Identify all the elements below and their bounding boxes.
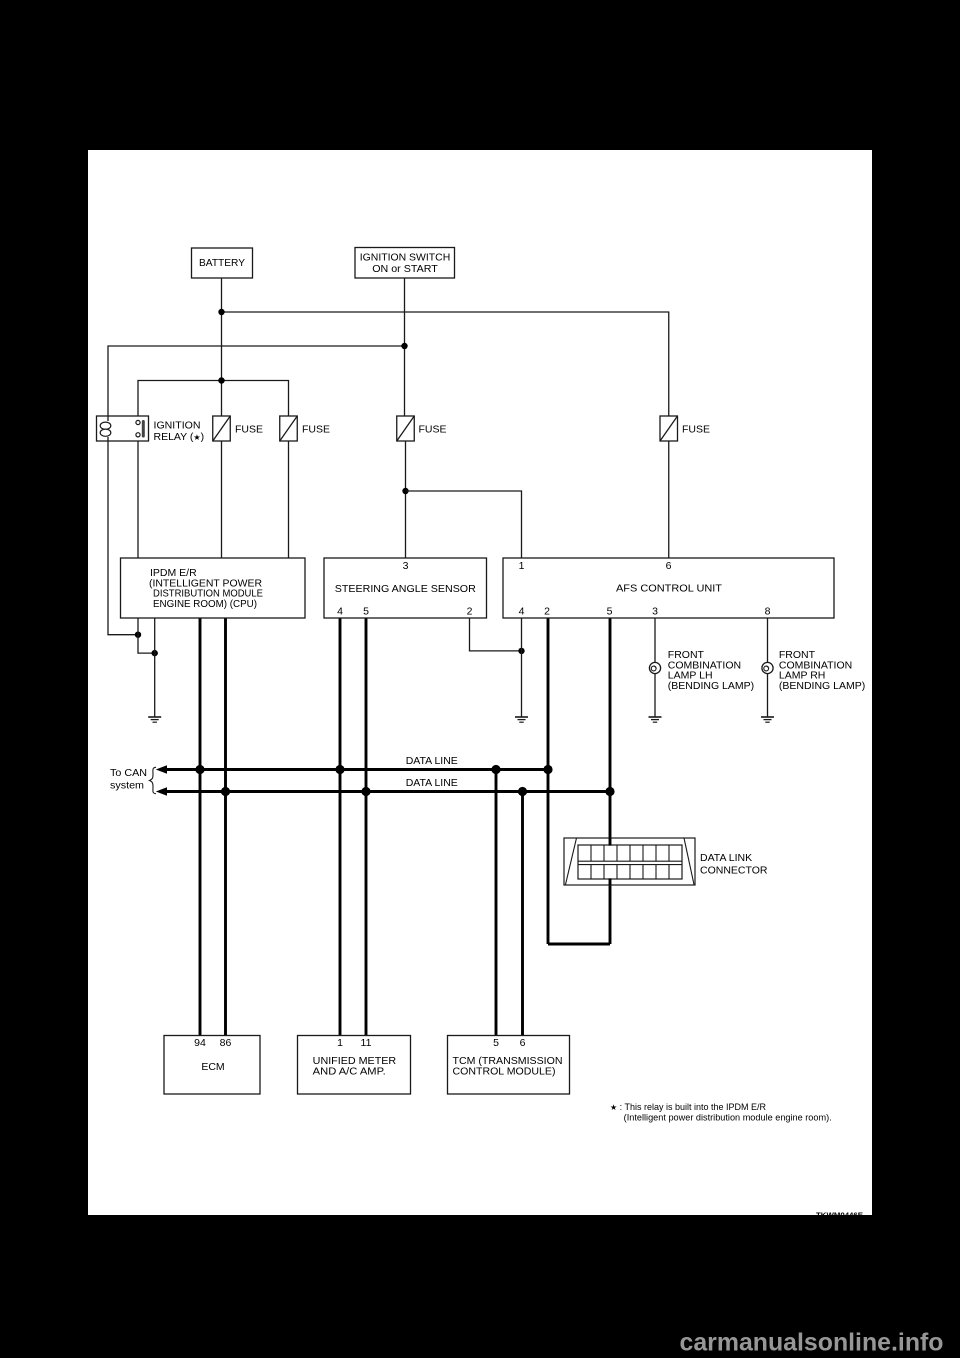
wire fuse F1 to IPDM — [221, 441, 223, 558]
wire branch to AFS pin 1 — [406, 491, 522, 558]
wire AFS pin 2 to data link connector — [547, 618, 550, 944]
arrow CAN L to CAN system — [156, 787, 167, 796]
wire battery feed to relay contact and fuse F2 — [138, 381, 289, 417]
lamp front combination LH — [649, 662, 660, 673]
svg-text:6: 6 — [666, 560, 672, 572]
lamp front combination RH — [762, 662, 773, 673]
node CAN L meter — [361, 787, 370, 796]
data link connector — [564, 838, 768, 885]
node relay return junction — [135, 632, 141, 638]
svg-text:DATA LINE: DATA LINE — [406, 777, 458, 789]
wire data link connector pin stubs — [609, 838, 612, 885]
svg-text:FUSE: FUSE — [302, 424, 330, 436]
fuse F1 — [213, 416, 263, 441]
svg-text:(BENDING LAMP): (BENDING LAMP) — [779, 680, 865, 692]
svg-text:11: 11 — [361, 1037, 372, 1049]
svg-text:IGNITION SWITCH: IGNITION SWITCH — [360, 252, 451, 264]
svg-text:ECM: ECM — [201, 1061, 224, 1073]
wire CAN bus to TCM pin 5 — [495, 770, 498, 1036]
svg-text:8: 8 — [765, 606, 771, 618]
wire CAN H bus — [162, 768, 548, 771]
svg-text:★ : This relay is built into t: ★ : This relay is built into the IPDM E/… — [610, 1102, 766, 1112]
svg-text:94: 94 — [194, 1037, 206, 1049]
svg-text:(BENDING LAMP): (BENDING LAMP) — [668, 680, 754, 692]
svg-text:FUSE: FUSE — [235, 424, 263, 436]
battery — [192, 248, 253, 278]
svg-text:3: 3 — [652, 606, 658, 618]
svg-text:4: 4 — [519, 606, 525, 618]
svg-text:5: 5 — [363, 606, 369, 618]
svg-text:5: 5 — [607, 606, 613, 618]
svg-text:BATTERY: BATTERY — [199, 257, 245, 269]
wire fuse F2 to IPDM — [288, 441, 290, 558]
ground IPDM — [148, 717, 161, 722]
svg-text:ON or START: ON or START — [372, 263, 438, 275]
svg-text:86: 86 — [220, 1037, 232, 1049]
svg-text:To CAN: To CAN — [110, 768, 147, 779]
node IPDM ground junction — [152, 650, 158, 656]
unified meter and A/C amp — [298, 1036, 411, 1095]
node battery branch junction — [218, 377, 224, 383]
wire battery feed to fuse F4 — [222, 312, 669, 416]
svg-text:CONNECTOR: CONNECTOR — [700, 865, 768, 877]
diagram panel — [88, 150, 872, 1215]
steering angle sensor — [324, 558, 487, 618]
svg-text:1: 1 — [337, 1037, 343, 1049]
wire fuse F4 to AFS pin 6 — [668, 441, 670, 558]
node CAN H ECM — [195, 765, 204, 774]
svg-text:FUSE: FUSE — [682, 424, 710, 436]
svg-text:2: 2 — [544, 606, 550, 618]
ignition relay — [97, 416, 205, 443]
node CAN L ECM — [221, 787, 230, 796]
node CAN H TCM — [491, 765, 500, 774]
svg-text:3: 3 — [403, 560, 409, 572]
wire AFS pin 4 to ground — [521, 618, 523, 717]
wire CAN IPDM to ECM pin 94 — [199, 618, 202, 1036]
svg-text:6: 6 — [520, 1037, 526, 1049]
svg-text:RELAY (★): RELAY (★) — [154, 431, 205, 443]
node fuse F3 branch — [402, 488, 408, 494]
node CAN L AFS — [605, 787, 614, 796]
label front combination lamp LH — [668, 649, 754, 692]
wire CAN bus to TCM pin 6 — [521, 792, 524, 1036]
AFS control unit — [503, 558, 834, 618]
svg-text:4: 4 — [337, 606, 343, 618]
footnote relay note — [610, 1102, 832, 1123]
svg-text:5: 5 — [493, 1037, 499, 1049]
svg-text:2: 2 — [467, 606, 473, 618]
label To CAN system — [110, 767, 156, 793]
node ignition feed junction — [401, 343, 407, 349]
svg-text:AND A/C AMP.: AND A/C AMP. — [313, 1065, 386, 1077]
wire AFS pin 5 through data link connector — [609, 618, 612, 944]
wire CAN sensor pin 4 to meter pin 1 — [339, 618, 342, 1036]
wire data link connector loop — [548, 943, 610, 946]
arrow CAN H to CAN system — [156, 765, 167, 774]
svg-text:DATA LINE: DATA LINE — [406, 755, 458, 767]
node CAN H AFS — [543, 765, 552, 774]
fuse F3 — [397, 416, 447, 441]
wire CAN sensor pin 5 to meter pin 11 — [365, 618, 368, 1036]
svg-text:DATA LINK: DATA LINK — [700, 852, 752, 864]
ground AFS — [515, 717, 528, 722]
svg-text:carmanualsonline.info: carmanualsonline.info — [680, 1329, 944, 1357]
ignition switch — [355, 248, 455, 279]
wire IPDM output to ground junction — [138, 618, 155, 653]
wire IPDM to ground — [154, 618, 156, 717]
fuse F4 — [660, 416, 710, 441]
wire battery to fuse F1 — [221, 278, 223, 416]
wire AFS pin 3 to lamp LH — [654, 618, 656, 717]
svg-text:ENGINE ROOM) (CPU): ENGINE ROOM) (CPU) — [153, 598, 257, 610]
wire ignition feed to ignition relay coil — [108, 346, 405, 416]
wire relay contact to IPDM — [137, 441, 139, 558]
svg-text:STEERING ANGLE SENSOR: STEERING ANGLE SENSOR — [335, 583, 476, 595]
wire CAN L bus — [162, 790, 610, 793]
node sensor ground junction — [518, 648, 524, 654]
IPDM E/R unit — [121, 558, 306, 618]
svg-text:TKWM0446E: TKWM0446E — [816, 1211, 863, 1220]
svg-text:1: 1 — [519, 560, 525, 572]
svg-text:IGNITION: IGNITION — [154, 420, 201, 432]
svg-text:(Intelligent power distributio: (Intelligent power distribution module e… — [624, 1113, 832, 1123]
TCM — [448, 1036, 570, 1095]
wire AFS pin 8 to lamp RH — [767, 618, 769, 717]
svg-text:CONTROL MODULE): CONTROL MODULE) — [453, 1065, 556, 1077]
svg-text:FUSE: FUSE — [419, 424, 447, 436]
wire relay coil return — [108, 441, 138, 635]
wire fuse F3 to steering angle sensor pin 3 — [405, 441, 407, 558]
wire ignition switch to fuse F3 — [404, 278, 406, 416]
fuse F2 — [280, 416, 330, 441]
node CAN L TCM — [518, 787, 527, 796]
ground lamp RH — [761, 717, 774, 722]
svg-text:AFS CONTROL UNIT: AFS CONTROL UNIT — [616, 583, 723, 595]
node battery junction — [218, 309, 224, 315]
ground lamp LH — [649, 717, 662, 722]
svg-text:system: system — [110, 781, 144, 792]
node CAN H meter — [335, 765, 344, 774]
label front combination lamp RH — [779, 649, 865, 692]
wire steering sensor pin 2 to ground junction — [470, 618, 522, 651]
ECM — [164, 1036, 260, 1095]
wire CAN IPDM to ECM pin 86 — [224, 618, 227, 1036]
